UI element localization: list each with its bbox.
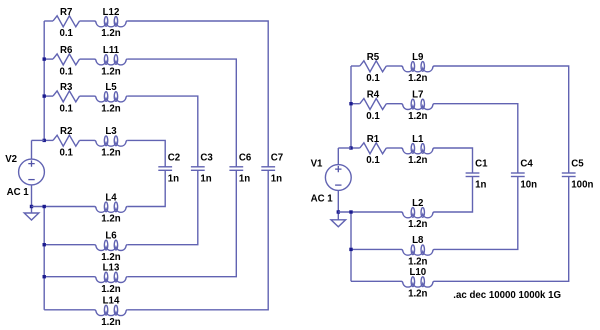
wire: L7 to capacitor column x=517.8 [434,104,518,173]
value 1.2n of L2 [408,219,427,230]
node: V2 bottom junction [30,205,33,208]
svg-text:L14: L14 [103,296,120,307]
resistor R7 [53,16,80,27]
svg-text:L5: L5 [105,82,117,93]
value 0.1 of R2 [59,148,73,159]
svg-text:1n: 1n [475,180,486,191]
svg-text:1.2n: 1.2n [101,103,120,114]
spice directive .ac dec 10000 1000k 1G [453,290,561,301]
node: rail junction at R2 row [43,139,46,142]
wire: L8 to capacitor column x=517.8 [434,177,518,250]
wire: L3 to capacitor column x=165.2 [127,140,165,166]
capacitor C7 [261,167,275,171]
wire: V1 bottom to ground stub [337,212,339,220]
label R6 [60,45,73,56]
svg-text:1.2n: 1.2n [408,219,427,230]
wire: rail to L2 [338,211,401,213]
value 1.2n of L13 [101,284,120,295]
wire: L6 to capacitor column x=197.8 [127,170,198,244]
svg-text:R7: R7 [60,7,72,18]
label V2 [5,154,17,165]
wire: rail to L8 [351,248,402,250]
label L10 [409,267,426,278]
svg-text:V1: V1 [311,159,323,170]
label L4 [105,192,117,203]
svg-text:L13: L13 [103,263,120,274]
svg-text:L11: L11 [103,45,120,56]
svg-text:L2: L2 [412,198,423,209]
value 0.1 of R5 [366,73,380,84]
value 0.1 of R7 [59,28,73,39]
svg-text:0.1: 0.1 [59,103,73,114]
svg-text:C6: C6 [239,153,252,164]
label C2 [168,153,180,164]
voltage source V2 [19,159,45,185]
wire: left circuit return rail (bottom) [43,207,45,310]
value 1n of C7 [271,173,282,184]
label R4 [367,90,380,101]
svg-text:C5: C5 [571,159,584,170]
value 1n of C3 [200,173,211,184]
svg-text:0.1: 0.1 [59,66,73,77]
label R1 [367,134,380,145]
node: V1 bottom junction [337,210,340,213]
node: rail junction at R4 row [349,102,352,105]
wire: rail to L14 [44,309,95,311]
svg-text:0.1: 0.1 [366,155,380,166]
capacitor C4 [511,173,525,177]
svg-text:C7: C7 [271,153,283,164]
wire: L14 to capacitor column x=268.2 [127,170,268,309]
svg-text:L3: L3 [105,126,117,137]
value 10n of C4 [520,180,537,191]
inductor L6 [95,240,128,250]
wire: L10 to capacitor column x=568.7 [434,177,569,282]
inductor L11 [95,55,128,65]
wire: R7 to L12 [80,20,95,22]
label V1 [311,159,323,170]
svg-text:L7: L7 [412,90,423,101]
capacitor C1 [466,173,480,177]
svg-text:AC 1: AC 1 [311,194,334,205]
node: bottom rail junction at L6 row [43,243,46,246]
inductor L12 [95,17,128,27]
svg-text:1.2n: 1.2n [408,155,427,166]
label L2 [412,198,423,209]
label L9 [412,52,424,63]
wire: V1 top lead [337,148,339,165]
inductor L9 [401,62,434,72]
label R3 [60,82,73,93]
wire: V2 bottom lead [31,185,33,207]
label L8 [412,235,424,246]
inductor L4 [95,202,128,212]
inductor L7 [401,99,434,109]
svg-text:1.2n: 1.2n [408,111,427,122]
svg-text:0.1: 0.1 [59,28,73,39]
svg-text:0.1: 0.1 [366,73,380,84]
value 1.2n of L9 [408,73,427,84]
svg-text:1.2n: 1.2n [101,214,120,225]
svg-text:0.1: 0.1 [366,111,380,122]
wire: R6 to L11 [80,58,95,60]
voltage source V1 [325,165,351,191]
label L12 [103,7,120,18]
inductor L14 [95,305,128,315]
inductor L10 [401,277,434,287]
label L14 [103,296,120,307]
wire: rail to L10 [351,280,402,282]
svg-text:R6: R6 [60,45,73,56]
value 1.2n of L4 [101,214,120,225]
value 1.2n of L7 [408,111,427,122]
svg-text:.ac dec 10000 1000k 1G: .ac dec 10000 1000k 1G [453,290,561,301]
svg-text:L10: L10 [409,267,426,278]
label L7 [412,90,423,101]
value 1.2n of L11 [101,66,120,77]
label R2 [60,126,72,137]
value 1.2n of L12 [101,28,120,39]
wire: R1 to L1 [386,147,401,149]
svg-text:1.2n: 1.2n [408,73,427,84]
wire: rail to R6 [44,58,53,60]
node: rail junction at R1 row [349,146,352,149]
svg-text:C2: C2 [168,153,180,164]
label C5 [571,159,584,170]
svg-text:1.2n: 1.2n [101,252,120,263]
wire: rail to L6 [44,244,95,246]
label C1 [475,159,488,170]
wire: left circuit input rail (top) [43,21,45,140]
svg-text:100n: 100n [571,180,593,191]
label R7 [60,7,72,18]
resistor R4 [360,99,387,110]
value 1n of C2 [168,173,179,184]
ground (right) [331,220,346,227]
inductor L2 [401,208,434,218]
svg-text:1.2n: 1.2n [408,257,427,268]
value 1.2n of L6 [101,252,120,263]
inductor L5 [95,92,128,102]
wire: rail to R5 [351,65,360,67]
value 1.2n of L3 [101,148,120,159]
value 100n of C5 [571,180,593,191]
svg-text:1.2n: 1.2n [101,284,120,295]
wire: rail to R2 [44,139,53,141]
node: bottom rail junction at L2 row [349,210,352,213]
wire: L2 to capacitor column x=472.5 [434,177,473,213]
ground (left) [24,213,39,220]
value 1.2n of L5 [101,103,120,114]
label L3 [105,126,117,137]
wire: right circuit input rail (top) [350,66,352,148]
wire: R2 to L3 [80,139,95,141]
node: bottom rail junction at L8 row [349,248,352,251]
svg-text:C4: C4 [520,159,533,170]
inductor L1 [401,144,434,154]
value 0.1 of R1 [366,155,380,166]
svg-text:L9: L9 [412,52,424,63]
svg-text:1.2n: 1.2n [101,148,120,159]
svg-text:V2: V2 [5,154,17,165]
wire: rail to R4 [351,103,360,105]
label L5 [105,82,117,93]
svg-text:1n: 1n [200,173,211,184]
svg-text:R1: R1 [367,134,380,145]
svg-text:R4: R4 [367,90,380,101]
svg-text:R5: R5 [367,52,380,63]
svg-text:1.2n: 1.2n [101,317,120,328]
wire: L4 to capacitor column x=165.2 [127,170,165,206]
wire: L1 to capacitor column x=472.5 [434,148,473,173]
wire: rail to R1 [351,147,360,149]
resistor R5 [360,61,387,72]
inductor L8 [401,245,434,255]
wire: L12 to capacitor column x=268.2 [127,21,268,167]
wire: V1 bottom lead [337,190,339,212]
wire: L13 to capacitor column x=236.3 [127,170,236,276]
svg-text:L12: L12 [103,7,120,18]
value 0.1 of R6 [59,66,73,77]
value 0.1 of R3 [59,103,73,114]
inductor L13 [95,272,128,282]
resistor R2 [53,135,80,146]
wire: rail to L13 [44,276,95,278]
capacitor C2 [158,167,172,171]
svg-text:0.1: 0.1 [59,148,73,159]
inductor L3 [95,136,128,146]
capacitor C6 [229,167,243,171]
svg-text:C1: C1 [475,159,488,170]
capacitor C3 [191,167,205,171]
wire: V2 top lead [31,140,33,159]
value 1.2n of L10 [408,289,427,300]
label R5 [367,52,380,63]
label C3 [200,153,213,164]
svg-text:L1: L1 [412,134,424,145]
wire: right circuit return rail (bottom) [350,212,352,281]
wire: L9 to capacitor column x=568.7 [434,66,569,173]
svg-text:1.2n: 1.2n [101,28,120,39]
label C7 [271,153,283,164]
value 1n of C6 [239,173,250,184]
wire: V2 top to rail [32,139,45,141]
wire: R5 to L9 [386,65,401,67]
wire: rail to R7 [44,20,53,22]
resistor R6 [53,54,80,65]
svg-text:C3: C3 [200,153,213,164]
label L11 [103,45,120,56]
wire: L11 to capacitor column x=236.3 [127,59,236,167]
svg-text:L8: L8 [412,235,424,246]
wire: rail to R3 [44,95,53,97]
svg-text:1n: 1n [239,173,250,184]
wire: R4 to L7 [386,103,401,105]
wire: V2 bottom to ground stub [31,207,33,214]
value AC 1 of V2 [7,187,30,198]
value 1n of C1 [475,180,486,191]
wire: R3 to L5 [80,95,95,97]
value AC 1 of V1 [311,194,334,205]
node: bottom rail junction at L4 row [43,205,46,208]
resistor R1 [360,143,387,154]
svg-text:L6: L6 [105,231,117,242]
value 1.2n of L8 [408,257,427,268]
svg-text:R2: R2 [60,126,72,137]
label L1 [412,134,424,145]
svg-text:AC 1: AC 1 [7,187,30,198]
wire: rail to L4 [32,206,95,208]
svg-text:10n: 10n [520,180,537,191]
label L13 [103,263,120,274]
svg-text:1n: 1n [168,173,179,184]
capacitor C5 [562,173,576,177]
wire: L5 to capacitor column x=197.8 [127,96,198,167]
label C6 [239,153,252,164]
label L6 [105,231,117,242]
svg-text:1.2n: 1.2n [101,66,120,77]
resistor R3 [53,91,80,102]
value 1.2n of L14 [101,317,120,328]
svg-text:1.2n: 1.2n [408,289,427,300]
label C4 [520,159,533,170]
svg-text:L4: L4 [105,192,117,203]
node: rail junction at R6 row [43,57,46,60]
value 0.1 of R4 [366,111,380,122]
value 1.2n of L1 [408,155,427,166]
node: rail junction at R3 row [43,94,46,97]
svg-text:1n: 1n [271,173,282,184]
svg-text:R3: R3 [60,82,73,93]
node: bottom rail junction at L13 row [43,275,46,278]
wire: V1 top to rail [338,147,351,149]
